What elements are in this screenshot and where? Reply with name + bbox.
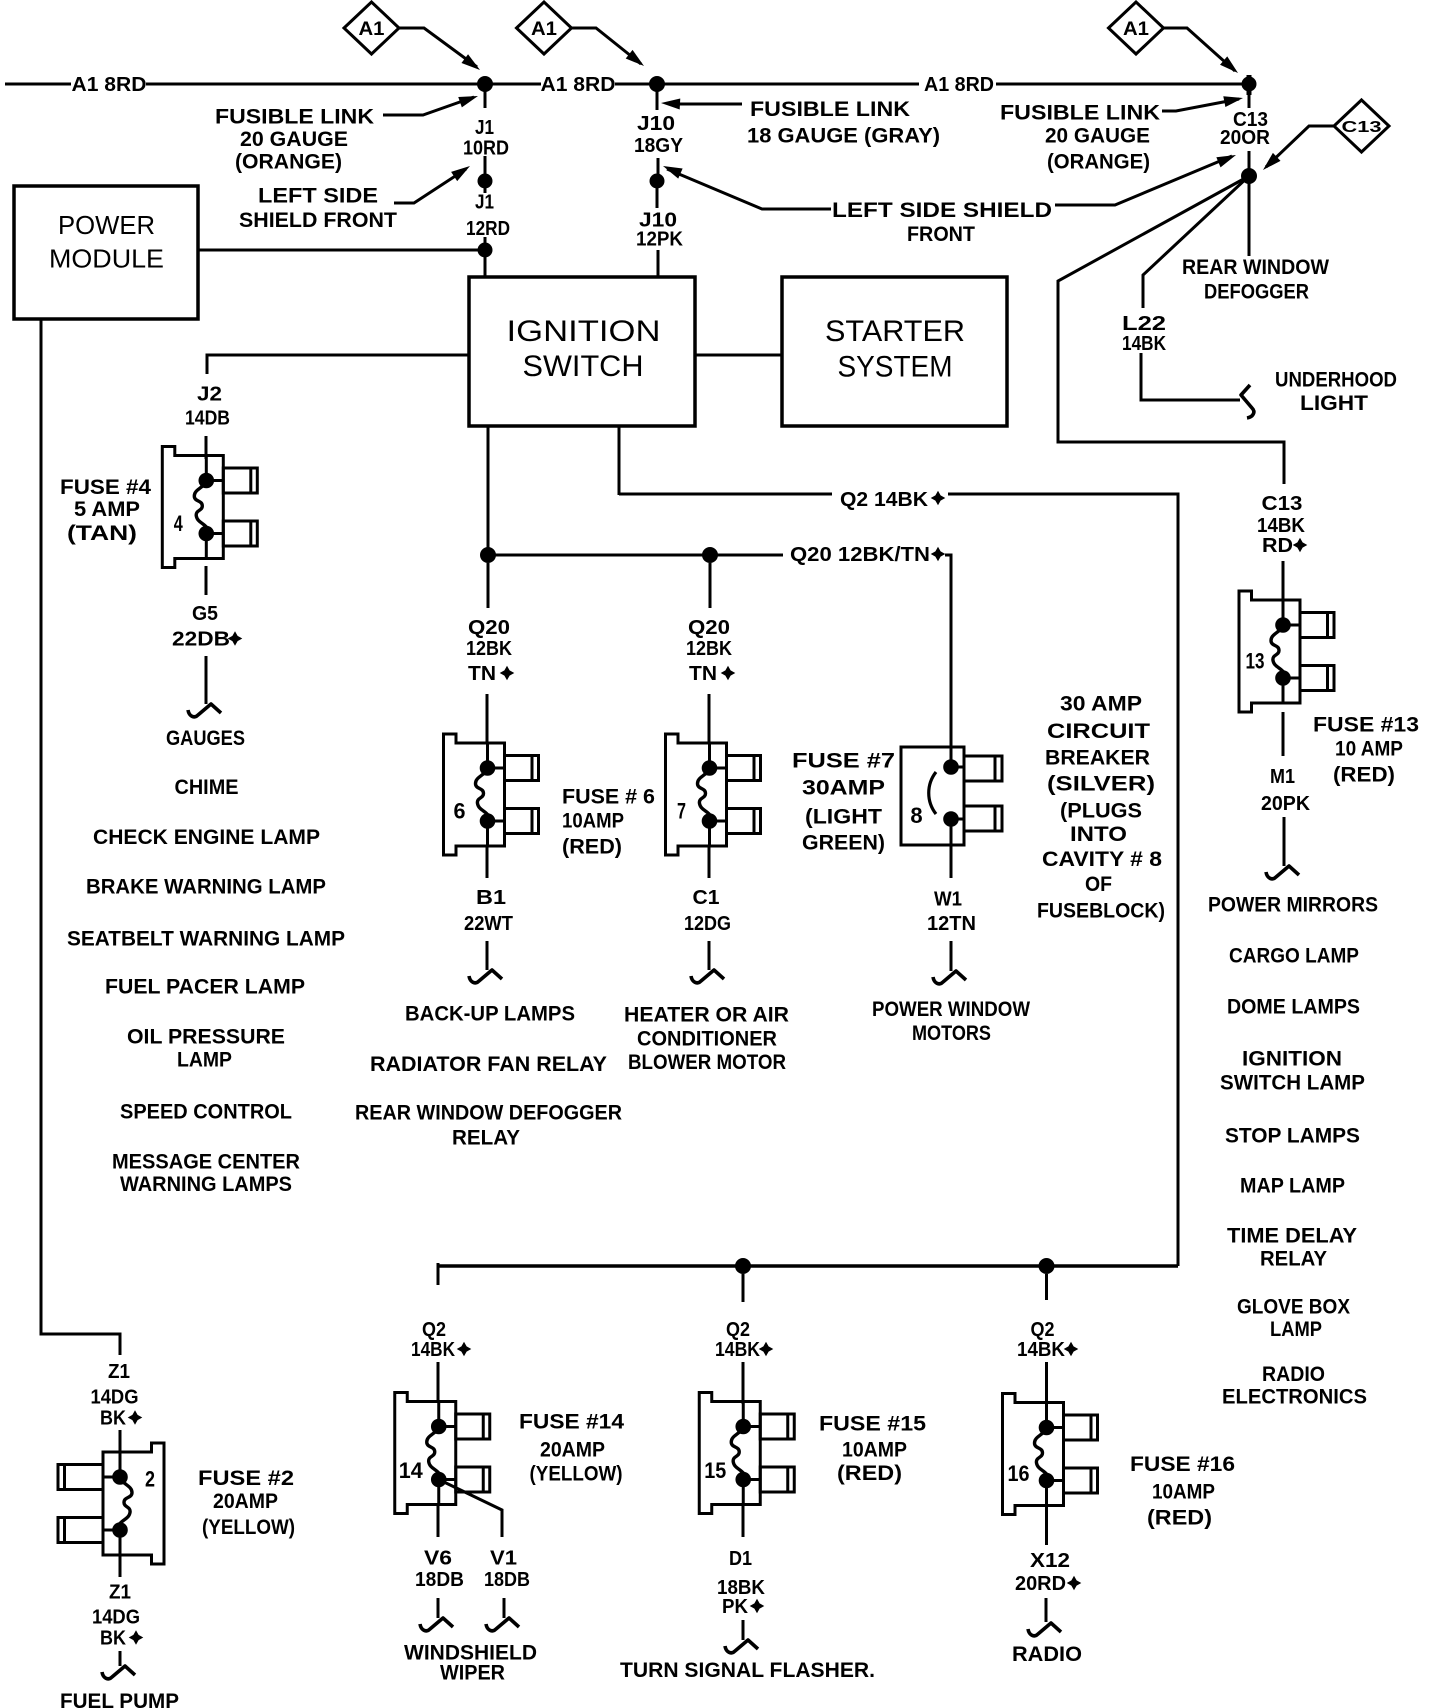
svg-text:FUSE #4: FUSE #4: [60, 476, 151, 499]
wire A1 8RD top bus segment 3: [615, 83, 919, 86]
wire into fuse 13: [1282, 561, 1285, 601]
wire ignition bottom left: [487, 426, 490, 548]
wire J10 stub below bus: [656, 91, 659, 110]
junction dot Q20 left: [480, 547, 496, 563]
break V1: [486, 1618, 519, 1631]
leader fusible link left: [383, 97, 474, 115]
svg-text:SYSTEM: SYSTEM: [838, 350, 953, 383]
svg-text:A1: A1: [531, 19, 557, 40]
wire below fuse 15: [742, 1505, 745, 1537]
svg-text:FUSIBLE LINK: FUSIBLE LINK: [750, 98, 910, 121]
star Q2 fuse16: [1064, 1342, 1079, 1357]
svg-text:12TN: 12TN: [927, 913, 976, 935]
svg-text:FUEL PUMP: FUEL PUMP: [60, 1690, 179, 1708]
star Q2 14BK: [931, 491, 946, 506]
power module box: [14, 186, 198, 319]
svg-text:LAMP: LAMP: [1270, 1318, 1322, 1341]
svg-text:15: 15: [704, 1458, 726, 1483]
wire M1 tail: [1283, 817, 1286, 866]
svg-text:(LIGHT: (LIGHT: [805, 806, 882, 829]
connector diamond A1 #3: [1109, 2, 1164, 54]
wire V6 tail: [437, 1598, 440, 1618]
star TN fuse6: [500, 666, 515, 681]
svg-text:20AMP: 20AMP: [213, 1490, 278, 1513]
svg-text:(PLUGS: (PLUGS: [1060, 800, 1142, 823]
svg-text:5 AMP: 5 AMP: [74, 498, 140, 521]
svg-text:MAP LAMP: MAP LAMP: [1240, 1175, 1345, 1198]
svg-text:2: 2: [145, 1467, 155, 1492]
junction dot C13 tap: [1242, 77, 1257, 92]
svg-text:RADIO: RADIO: [1012, 1643, 1082, 1666]
svg-text:FUSIBLE LINK: FUSIBLE LINK: [215, 106, 374, 129]
wire J10 segment: [657, 158, 660, 174]
svg-text:REAR WINDOW DEFOGGER: REAR WINDOW DEFOGGER: [355, 1102, 622, 1125]
wire to rear window defogger: [1248, 183, 1251, 256]
starter system box: [782, 277, 1007, 426]
svg-text:REAR WINDOW: REAR WINDOW: [1182, 256, 1329, 279]
svg-text:OF: OF: [1085, 873, 1112, 896]
svg-text:POWER: POWER: [58, 210, 155, 240]
svg-text:4: 4: [174, 511, 184, 536]
svg-text:LEFT SIDE SHIELD: LEFT SIDE SHIELD: [832, 199, 1052, 222]
svg-text:ELECTRONICS: ELECTRONICS: [1222, 1386, 1367, 1409]
svg-text:BRAKE WARNING LAMP: BRAKE WARNING LAMP: [86, 876, 326, 899]
svg-text:GLOVE BOX: GLOVE BOX: [1237, 1296, 1350, 1319]
wire A1 8RD top bus segment 1: [5, 83, 71, 86]
svg-text:12BK: 12BK: [466, 638, 512, 660]
svg-text:LIGHT: LIGHT: [1300, 392, 1368, 415]
leader fusible link right: [1162, 99, 1239, 111]
svg-text:CHIME: CHIME: [175, 776, 239, 799]
svg-text:A1 8RD: A1 8RD: [541, 74, 616, 96]
svg-text:GAUGES: GAUGES: [166, 727, 245, 750]
svg-text:30AMP: 30AMP: [802, 777, 885, 800]
svg-text:FUSE #16: FUSE #16: [1130, 1453, 1235, 1476]
junction dot J10/12PK splice: [650, 174, 665, 189]
svg-text:FUSE #15: FUSE #15: [819, 1413, 926, 1436]
fuse F14 20A: [395, 1393, 490, 1514]
svg-text:MESSAGE CENTER: MESSAGE CENTER: [112, 1151, 300, 1174]
svg-text:B1: B1: [476, 887, 506, 909]
break Z1 to fuel pump: [102, 1666, 135, 1679]
connector diamond C13: [1334, 100, 1389, 152]
svg-text:STARTER: STARTER: [825, 315, 965, 348]
svg-text:FUSEBLOCK): FUSEBLOCK): [1037, 900, 1165, 923]
leader from diamond C13: [1266, 126, 1334, 167]
fuse F7 30A: [666, 734, 761, 855]
svg-text:TIME DELAY: TIME DELAY: [1227, 1225, 1357, 1248]
svg-text:14: 14: [399, 1458, 424, 1483]
wire Q20 corner to breaker: [945, 555, 951, 747]
fuse F16 10A: [1003, 1394, 1098, 1515]
svg-text:18GY: 18GY: [634, 135, 684, 157]
svg-text:V1: V1: [490, 1548, 517, 1570]
break to underhood light: [1241, 385, 1254, 418]
wire L22 to underhood light: [1141, 353, 1240, 400]
svg-text:FUSE # 6: FUSE # 6: [562, 786, 655, 809]
star TN fuse7: [721, 666, 736, 681]
wire J2 from ignition switch: [207, 355, 469, 374]
svg-text:FUSIBLE LINK: FUSIBLE LINK: [1000, 102, 1160, 125]
svg-text:Q20: Q20: [468, 617, 510, 639]
junction dot power module feed: [478, 243, 493, 258]
svg-text:D1: D1: [729, 1548, 752, 1570]
svg-text:14BK: 14BK: [1017, 1339, 1066, 1361]
svg-text:FUSE #13: FUSE #13: [1313, 714, 1419, 737]
svg-text:CIRCUIT: CIRCUIT: [1047, 720, 1150, 743]
svg-text:22DB: 22DB: [172, 629, 230, 651]
svg-text:SEATBELT WARNING LAMP: SEATBELT WARNING LAMP: [67, 928, 345, 951]
svg-text:10AMP: 10AMP: [842, 1439, 907, 1462]
svg-text:Q2 14BK: Q2 14BK: [840, 489, 929, 511]
wire below fuse 4: [205, 566, 208, 595]
svg-text:(RED): (RED): [837, 1462, 902, 1485]
wire into fuse 7: [708, 694, 711, 743]
svg-text:FUSE #7: FUSE #7: [792, 750, 895, 773]
svg-text:16: 16: [1008, 1461, 1030, 1486]
svg-text:(TAN): (TAN): [67, 522, 137, 545]
svg-text:A1: A1: [1123, 19, 1149, 40]
svg-text:J2: J2: [197, 384, 222, 406]
wire V1 diagonal from fuse 14: [439, 1480, 502, 1538]
svg-text:30 AMP: 30 AMP: [1060, 693, 1142, 716]
circuit breaker CB8 30A: [901, 747, 1002, 845]
svg-text:8: 8: [910, 803, 922, 828]
svg-text:A1 8RD: A1 8RD: [72, 74, 147, 96]
junction dot C13 splice: [1241, 168, 1257, 184]
svg-text:FRONT: FRONT: [907, 223, 975, 246]
svg-text:18DB: 18DB: [415, 1569, 464, 1591]
wire J2 into fuse 4: [205, 436, 208, 459]
svg-text:13: 13: [1246, 649, 1265, 674]
svg-text:WIPER: WIPER: [440, 1662, 505, 1685]
svg-text:20PK: 20PK: [1261, 793, 1311, 815]
svg-text:18DB: 18DB: [484, 1569, 530, 1591]
fuse F13 10A: [1239, 591, 1334, 712]
svg-text:SWITCH LAMP: SWITCH LAMP: [1220, 1072, 1365, 1095]
wire ignition to starter: [695, 354, 782, 357]
svg-text:(SILVER): (SILVER): [1047, 773, 1155, 796]
svg-text:Q20: Q20: [688, 617, 730, 639]
star 20RD fuse16: [1067, 1576, 1082, 1591]
svg-text:BREAKER: BREAKER: [1045, 747, 1150, 770]
svg-text:10 AMP: 10 AMP: [1335, 738, 1403, 761]
star Q20 12BK/TN: [931, 547, 946, 562]
svg-text:(RED): (RED): [562, 836, 622, 859]
svg-text:18 GAUGE (GRAY): 18 GAUGE (GRAY): [747, 125, 940, 148]
leader from diamond A1 #1: [399, 28, 477, 67]
connector diamond A1 #2: [517, 2, 572, 54]
wire stub fuse 16 tap: [1045, 1274, 1048, 1300]
svg-text:IGNITION: IGNITION: [1242, 1048, 1342, 1071]
leader from diamond A1 #2: [571, 28, 641, 64]
wire C1 tail: [708, 941, 711, 970]
svg-text:IGNITION: IGNITION: [507, 315, 661, 348]
svg-text:Q20 12BK/TN: Q20 12BK/TN: [790, 544, 930, 566]
wire L22 diagonal from splice: [1143, 176, 1249, 308]
wire J1 to ignition switch: [484, 237, 487, 277]
svg-text:C1: C1: [693, 887, 720, 909]
junction dot fuse 15 tap: [735, 1258, 751, 1274]
svg-text:10AMP: 10AMP: [562, 810, 624, 833]
svg-text:DEFOGGER: DEFOGGER: [1204, 281, 1309, 304]
wire C13 segment to splice: [1248, 151, 1251, 169]
svg-text:CHECK ENGINE LAMP: CHECK ENGINE LAMP: [93, 826, 320, 849]
svg-text:CARGO LAMP: CARGO LAMP: [1229, 945, 1359, 968]
svg-text:A1: A1: [359, 19, 385, 40]
svg-text:J10: J10: [637, 113, 675, 135]
star BK lower: [129, 1630, 144, 1645]
svg-text:LAMP: LAMP: [177, 1049, 232, 1072]
svg-text:RELAY: RELAY: [452, 1127, 520, 1150]
wire A1 8RD top bus segment 4: [996, 83, 1248, 86]
break C1 to loads: [691, 970, 724, 983]
svg-text:20OR: 20OR: [1220, 127, 1271, 149]
svg-text:RD: RD: [1262, 535, 1293, 557]
svg-text:SHIELD FRONT: SHIELD FRONT: [239, 209, 397, 232]
star RD splice mark: [1293, 538, 1308, 553]
svg-text:C13: C13: [1342, 119, 1382, 136]
wire below fuse 6: [486, 847, 489, 878]
svg-text:BK: BK: [100, 1628, 126, 1650]
wire below breaker: [950, 845, 953, 878]
fuse F15 10A: [699, 1393, 794, 1514]
wire V1 tail: [503, 1598, 506, 1618]
svg-text:14DG: 14DG: [91, 1387, 139, 1409]
svg-text:SWITCH: SWITCH: [523, 350, 644, 383]
wire B1 tail: [486, 941, 489, 970]
svg-text:CAVITY # 8: CAVITY # 8: [1042, 848, 1162, 871]
ignition switch box: [469, 277, 695, 426]
wire Q20 to fuse 6 labels: [487, 563, 490, 608]
svg-text:J1: J1: [475, 192, 494, 214]
svg-text:FUSE #14: FUSE #14: [519, 1411, 624, 1434]
svg-text:20 GAUGE: 20 GAUGE: [1045, 125, 1150, 148]
svg-text:12BK: 12BK: [686, 638, 732, 660]
wire Q20 to fuse 7 labels: [709, 563, 712, 608]
junction dot Q20 right: [702, 547, 718, 563]
wire power module to J1: [198, 249, 478, 252]
wire Q2 bottom bus: [438, 1264, 1178, 1268]
wire J1 stub below bus: [484, 91, 487, 108]
fuse F2 20A: [58, 1443, 164, 1564]
wire Z1 tail: [119, 1651, 122, 1666]
svg-text:J1: J1: [475, 117, 494, 139]
svg-text:TN: TN: [468, 663, 496, 685]
svg-text:CONDITIONER: CONDITIONER: [637, 1028, 777, 1051]
svg-text:10AMP: 10AMP: [1152, 1481, 1215, 1504]
svg-text:G5: G5: [192, 603, 218, 625]
svg-text:(ORANGE): (ORANGE): [235, 151, 342, 174]
wire below fuse 13: [1282, 712, 1285, 756]
svg-text:12RD: 12RD: [466, 218, 510, 240]
star BK upper: [128, 1410, 143, 1425]
break D1: [725, 1640, 758, 1653]
svg-text:Q2: Q2: [726, 1319, 750, 1341]
wire J1 segment: [484, 156, 487, 174]
svg-text:POWER MIRRORS: POWER MIRRORS: [1208, 894, 1378, 917]
wire below fuse 16: [1045, 1506, 1048, 1545]
wire V6 below fuse 14: [437, 1505, 440, 1537]
svg-text:6: 6: [454, 799, 466, 824]
wire stub fuse 15 tap: [742, 1274, 745, 1302]
wire Q2 14BK segment 1: [619, 493, 832, 496]
svg-text:MOTORS: MOTORS: [912, 1022, 991, 1045]
wire Q2 14BK segment 2: [948, 494, 1178, 1266]
svg-text:RELAY: RELAY: [1260, 1248, 1327, 1271]
wire below fuse 2: [119, 1554, 122, 1577]
svg-text:20AMP: 20AMP: [540, 1439, 605, 1462]
wire into fuse 15: [742, 1362, 745, 1404]
wire D1 tail: [742, 1620, 745, 1640]
svg-text:7: 7: [677, 799, 686, 824]
break B1 to loads: [469, 970, 502, 983]
svg-text:UNDERHOOD: UNDERHOOD: [1275, 369, 1397, 392]
wire C13 stub below bus: [1248, 91, 1251, 108]
svg-text:(YELLOW): (YELLOW): [530, 1463, 623, 1486]
svg-text:FUEL PACER LAMP: FUEL PACER LAMP: [105, 976, 305, 999]
leader from diamond A1 #3: [1163, 28, 1235, 71]
svg-text:STOP LAMPS: STOP LAMPS: [1225, 1125, 1360, 1148]
svg-text:WARNING LAMPS: WARNING LAMPS: [120, 1173, 292, 1196]
svg-text:20 GAUGE: 20 GAUGE: [240, 128, 348, 151]
svg-text:OIL PRESSURE: OIL PRESSURE: [127, 1026, 285, 1049]
wire below fuse 7: [708, 847, 711, 878]
leader to C13 wire: [1055, 156, 1232, 205]
fuse F4 5A: [162, 447, 257, 568]
break G5 to gauges: [188, 704, 221, 717]
svg-text:V6: V6: [424, 1548, 452, 1570]
wire C13 branch diagonal: [1058, 176, 1284, 484]
svg-text:L22: L22: [1122, 313, 1166, 335]
star Q2 fuse14: [457, 1342, 472, 1357]
junction dot fuse 16 tap: [1039, 1258, 1055, 1274]
connector diamond A1 #1: [344, 2, 399, 54]
svg-text:(RED): (RED): [1333, 764, 1395, 787]
fuse F6 10A: [444, 734, 539, 855]
wire X12 tail: [1045, 1598, 1048, 1622]
star PK fuse15: [750, 1599, 765, 1614]
svg-text:SPEED CONTROL: SPEED CONTROL: [120, 1101, 292, 1124]
svg-text:POWER WINDOW: POWER WINDOW: [872, 998, 1030, 1021]
wire A1 8RD top bus segment 2: [146, 83, 541, 86]
star G5 22DB: [228, 631, 243, 646]
svg-text:M1: M1: [1270, 766, 1295, 788]
svg-text:RADIATOR FAN RELAY: RADIATOR FAN RELAY: [370, 1053, 607, 1076]
svg-text:(RED): (RED): [1147, 1507, 1212, 1530]
svg-text:(ORANGE): (ORANGE): [1047, 151, 1150, 174]
svg-text:Z1: Z1: [109, 1582, 131, 1604]
junction dot J1 tap: [477, 76, 493, 92]
svg-text:14BK: 14BK: [1257, 515, 1306, 537]
wire below splice: [484, 188, 487, 193]
wire stub fuse 14 tap: [437, 1263, 440, 1285]
svg-text:TURN SIGNAL FLASHER.: TURN SIGNAL FLASHER.: [620, 1659, 875, 1682]
junction dot J10 tap: [649, 76, 665, 92]
leader to J10 wire: [667, 169, 831, 209]
svg-text:INTO: INTO: [1070, 823, 1127, 846]
svg-text:FUSE #2: FUSE #2: [198, 1467, 294, 1490]
svg-text:C13: C13: [1262, 493, 1303, 515]
wire J10 to ignition switch: [657, 250, 660, 277]
wire G5 tail: [205, 656, 208, 704]
break W1 to loads: [933, 971, 966, 984]
svg-text:A1 8RD: A1 8RD: [924, 74, 994, 96]
svg-text:12DG: 12DG: [684, 913, 731, 935]
svg-text:Q2: Q2: [1031, 1319, 1055, 1341]
svg-text:GREEN): GREEN): [802, 832, 885, 855]
svg-text:HEATER OR AIR: HEATER OR AIR: [624, 1004, 789, 1027]
junction dot J1/12RD splice: [478, 174, 493, 189]
svg-text:BK: BK: [100, 1408, 126, 1430]
wire into fuse 14: [437, 1362, 440, 1402]
svg-text:LEFT SIDE: LEFT SIDE: [258, 185, 378, 208]
leader fusible link middle: [668, 103, 742, 106]
svg-text:W1: W1: [934, 889, 962, 911]
svg-text:20RD: 20RD: [1015, 1573, 1066, 1595]
wire ignition bottom right: [618, 426, 621, 495]
svg-text:Z1: Z1: [108, 1361, 130, 1383]
leader left side shield front left: [394, 169, 466, 203]
wire Q20 bus: [488, 554, 783, 557]
wire left bus from power module: [41, 319, 120, 1355]
svg-text:22WT: 22WT: [464, 913, 513, 935]
break X12: [1028, 1623, 1061, 1636]
wire into fuse 16: [1045, 1362, 1048, 1405]
break M1 to loads: [1266, 866, 1299, 879]
wire below J10 splice: [656, 188, 659, 208]
star Q2 fuse15: [759, 1342, 774, 1357]
svg-text:14DG: 14DG: [92, 1607, 140, 1629]
svg-text:X12: X12: [1030, 1550, 1070, 1572]
svg-text:RADIO: RADIO: [1262, 1363, 1325, 1386]
svg-text:TN: TN: [689, 663, 717, 685]
svg-text:14BK: 14BK: [411, 1339, 455, 1361]
svg-text:14BK: 14BK: [1122, 333, 1166, 355]
svg-text:BLOWER MOTOR: BLOWER MOTOR: [628, 1051, 786, 1074]
svg-text:Q2: Q2: [422, 1319, 446, 1341]
svg-text:DOME LAMPS: DOME LAMPS: [1227, 996, 1360, 1019]
svg-text:PK: PK: [722, 1596, 749, 1618]
svg-text:(YELLOW): (YELLOW): [202, 1516, 295, 1539]
svg-text:MODULE: MODULE: [49, 243, 164, 273]
wire into fuse 2: [119, 1430, 122, 1455]
break V6: [420, 1618, 453, 1631]
svg-text:BACK-UP LAMPS: BACK-UP LAMPS: [405, 1003, 575, 1026]
svg-text:14DB: 14DB: [185, 408, 230, 430]
wire W1 tail: [950, 941, 953, 971]
svg-text:14BK: 14BK: [715, 1339, 760, 1361]
svg-text:12PK: 12PK: [636, 229, 684, 251]
wire into fuse 6: [486, 694, 489, 743]
